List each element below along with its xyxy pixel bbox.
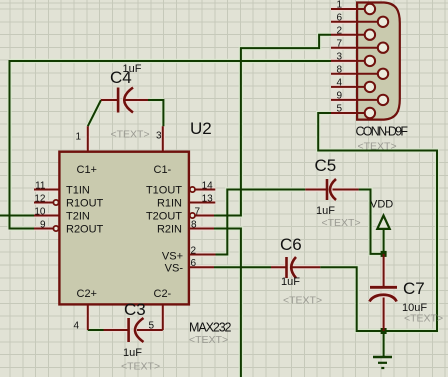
svg-text:1uF: 1uF — [123, 63, 142, 75]
svg-text:1: 1 — [336, 0, 342, 11]
svg-text:C6: C6 — [280, 235, 302, 254]
svg-text:T1OUT: T1OUT — [146, 185, 182, 197]
svg-text:<TEXT>: <TEXT> — [322, 217, 361, 229]
svg-text:T2OUT: T2OUT — [146, 211, 182, 223]
svg-text:C3: C3 — [124, 300, 146, 319]
svg-text:2: 2 — [191, 245, 197, 256]
svg-text:12: 12 — [34, 193, 46, 204]
svg-text:5: 5 — [336, 104, 342, 115]
svg-text:10: 10 — [34, 206, 46, 217]
svg-text:C1+: C1+ — [77, 164, 98, 176]
svg-text:6: 6 — [191, 258, 197, 269]
svg-text:VS-: VS- — [165, 263, 184, 275]
svg-text:2: 2 — [336, 25, 342, 36]
svg-text:<TEXT>: <TEXT> — [121, 361, 160, 373]
svg-text:R1IN: R1IN — [157, 198, 182, 210]
svg-text:5: 5 — [148, 321, 154, 332]
svg-text:C2-: C2- — [154, 288, 172, 300]
svg-text:<TEXT>: <TEXT> — [283, 295, 322, 307]
svg-text:<TEXT>: <TEXT> — [358, 141, 397, 153]
svg-text:8: 8 — [336, 65, 342, 76]
svg-text:6: 6 — [336, 13, 342, 24]
svg-text:C5: C5 — [315, 156, 337, 175]
svg-text:9: 9 — [336, 91, 342, 102]
svg-text:3: 3 — [336, 52, 342, 63]
svg-text:CONN-D9F: CONN-D9F — [356, 125, 409, 139]
svg-text:T1IN: T1IN — [66, 185, 90, 197]
svg-text:VS+: VS+ — [162, 251, 183, 263]
svg-text:MAX232: MAX232 — [189, 321, 232, 335]
svg-text:VDD: VDD — [370, 199, 393, 211]
svg-text:C2+: C2+ — [77, 288, 98, 300]
svg-text:R2OUT: R2OUT — [66, 224, 104, 236]
svg-text:R1OUT: R1OUT — [66, 198, 104, 210]
svg-text:7: 7 — [336, 38, 342, 49]
svg-text:8: 8 — [191, 219, 197, 230]
svg-text:1uF: 1uF — [123, 347, 142, 359]
svg-text:<TEXT>: <TEXT> — [404, 313, 443, 325]
svg-text:1uF: 1uF — [316, 205, 335, 217]
svg-text:<TEXT>: <TEXT> — [111, 128, 150, 140]
svg-text:C1-: C1- — [154, 164, 172, 176]
svg-text:C7: C7 — [403, 279, 425, 298]
svg-text:3: 3 — [156, 131, 162, 142]
svg-text:13: 13 — [202, 193, 214, 204]
svg-text:U2: U2 — [190, 119, 212, 138]
svg-text:1: 1 — [75, 132, 81, 143]
svg-text:14: 14 — [202, 180, 214, 191]
svg-text:T2IN: T2IN — [66, 211, 90, 223]
svg-text:7: 7 — [195, 206, 201, 217]
svg-text:11: 11 — [35, 180, 46, 191]
svg-text:<TEXT>: <TEXT> — [189, 334, 228, 346]
svg-text:4: 4 — [73, 321, 79, 332]
svg-text:4: 4 — [336, 78, 342, 89]
svg-text:R2IN: R2IN — [157, 224, 182, 236]
svg-text:1uF: 1uF — [281, 276, 300, 288]
svg-text:9: 9 — [40, 219, 46, 230]
